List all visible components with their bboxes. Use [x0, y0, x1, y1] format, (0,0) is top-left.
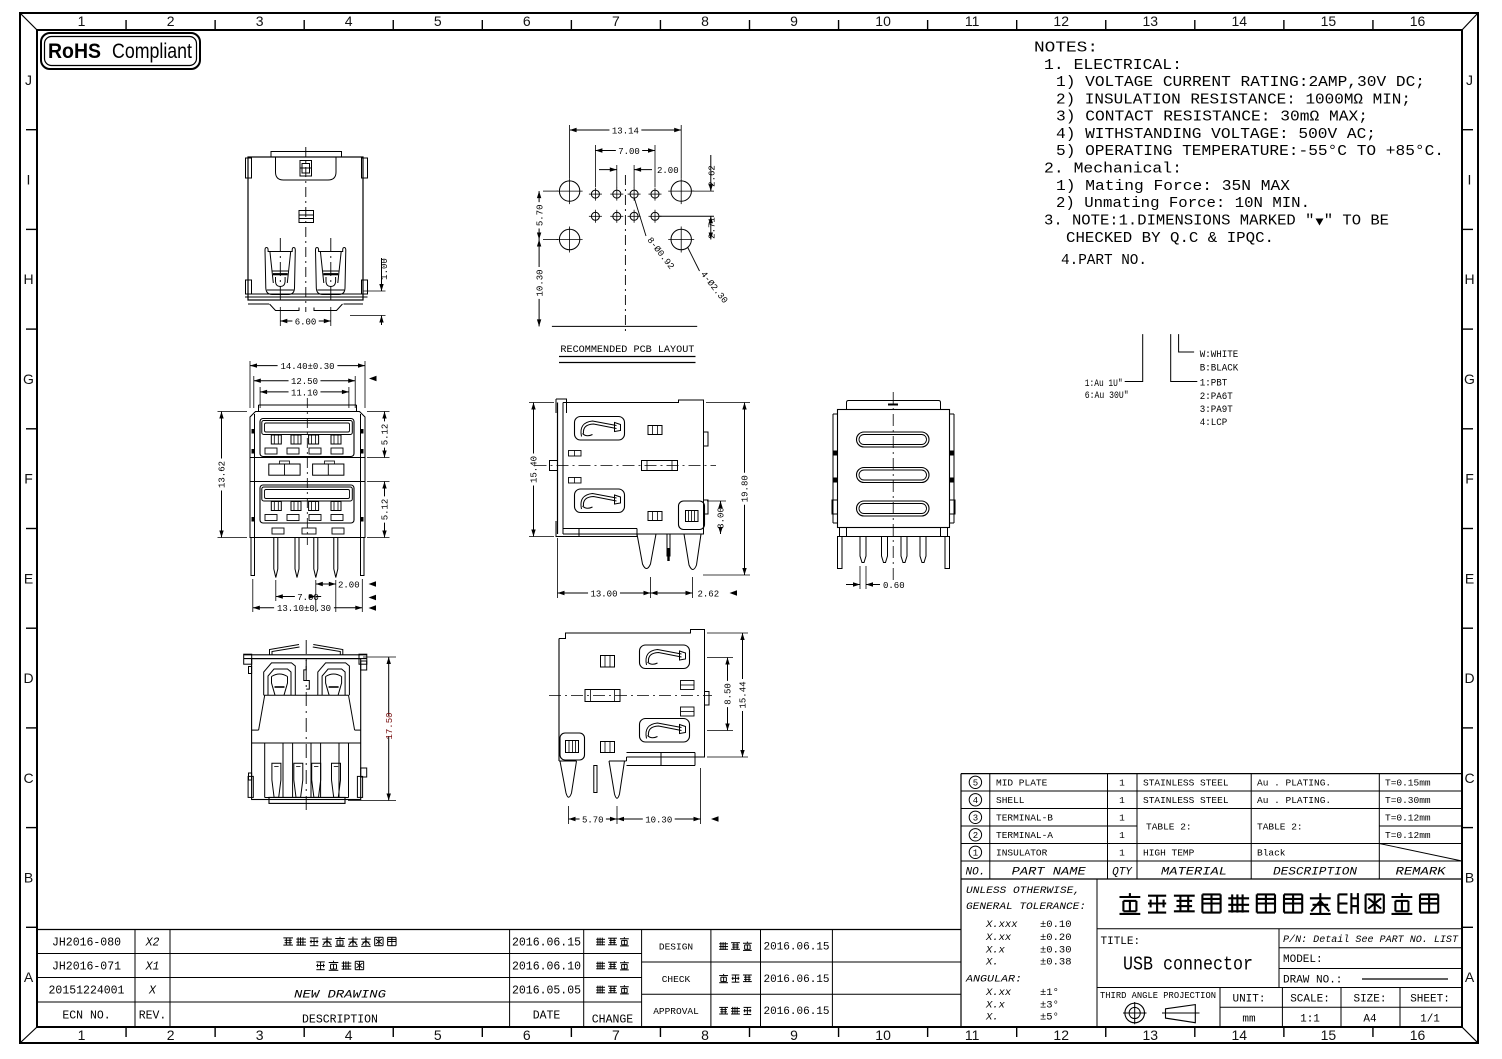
tolerance block [1096, 879, 1098, 1027]
svg-text:14: 14 [1232, 1027, 1248, 1043]
side view rear lock box [679, 501, 705, 530]
svg-text:X.xx: X.xx [985, 932, 1012, 944]
svg-text:T=0.30mm: T=0.30mm [1385, 795, 1431, 806]
revision table Chinese descriptions [283, 937, 293, 939]
svg-text:9: 9 [790, 1027, 798, 1043]
svg-text:G: G [1464, 371, 1475, 387]
svg-text:±5°: ±5° [1040, 1011, 1059, 1023]
PCB hole: shell hole bottom-right [671, 229, 691, 249]
svg-text:4.PART NO.: 4.PART NO. [1061, 252, 1147, 269]
svg-text:3) CONTACT RESISTANCE: 30mΩ MA: 3) CONTACT RESISTANCE: 30mΩ MAX; [1056, 109, 1368, 126]
svg-text:14.40±0.30: 14.40±0.30 [280, 362, 334, 372]
svg-text:RoHS: RoHS [48, 40, 101, 63]
dimension 7.00 pins [275, 580, 277, 601]
dimension 0.60 [859, 566, 861, 589]
top view centerline [305, 147, 307, 312]
bottom view pins [272, 763, 281, 797]
front view pins [274, 538, 278, 578]
svg-text:X.x: X.x [985, 944, 1006, 956]
svg-text:UNLESS OTHERWISE,: UNLESS OTHERWISE, [966, 885, 1080, 897]
svg-text:5.12: 5.12 [381, 424, 391, 446]
svg-text:F: F [1465, 471, 1474, 487]
svg-text:3:PA9T: 3:PA9T [1200, 405, 1233, 416]
svg-text:11.10: 11.10 [291, 388, 318, 398]
PCB hole: shell hole top-right [671, 181, 691, 201]
bottom-side lock box [560, 733, 585, 760]
svg-text:ECN NO.: ECN NO. [62, 1010, 110, 1023]
svg-text:T=0.12mm: T=0.12mm [1385, 813, 1431, 824]
svg-text:±0.30: ±0.30 [1040, 944, 1072, 956]
svg-text:1:1: 1:1 [1300, 1014, 1320, 1026]
svg-text:H: H [23, 271, 33, 287]
svg-text:7.00: 7.00 [297, 593, 319, 603]
svg-text:12: 12 [1053, 1027, 1069, 1043]
svg-text:2016.06.15: 2016.06.15 [512, 937, 581, 950]
side view latch spring upper [575, 417, 625, 441]
svg-text:3: 3 [256, 1027, 264, 1043]
svg-text:SHELL: SHELL [996, 795, 1025, 806]
leader 4-O2.30 [688, 247, 700, 271]
dimension 8.50 [707, 657, 733, 659]
svg-text:±0.20: ±0.20 [1040, 932, 1072, 944]
svg-text:TABLE 2:: TABLE 2: [1146, 822, 1192, 833]
svg-text:W:WHITE: W:WHITE [1200, 350, 1239, 361]
dimension 3.00 [707, 500, 726, 502]
svg-text:I: I [1468, 172, 1472, 188]
svg-text:DESCRIPTION: DESCRIPTION [302, 1014, 378, 1027]
bottom view tongue block [264, 694, 349, 696]
dimension 12.50 [253, 376, 255, 408]
svg-text:2.62: 2.62 [708, 165, 718, 187]
bottom-side centerline [549, 695, 712, 697]
svg-text:STAINLESS STEEL: STAINLESS STEEL [1143, 778, 1229, 789]
dimension 5.12 lower [384, 482, 386, 497]
svg-text:6: 6 [523, 1027, 531, 1043]
dimension 13.14 [569, 125, 571, 178]
svg-text:3.00: 3.00 [717, 507, 727, 529]
front view lower USB port [260, 485, 354, 523]
svg-text:USB connector: USB connector [1123, 954, 1253, 976]
svg-text:4) WITHSTANDING VOLTAGE: 500V: 4) WITHSTANDING VOLTAGE: 500V AC; [1056, 126, 1376, 143]
rear view legs and pins [838, 537, 843, 569]
svg-text:13.10±0.30: 13.10±0.30 [277, 604, 331, 614]
svg-text:UNIT:: UNIT: [1232, 994, 1265, 1006]
svg-text:15: 15 [1321, 13, 1337, 29]
side view shell outline [563, 400, 704, 534]
svg-text:16: 16 [1410, 13, 1426, 29]
top view contact spring right [316, 248, 346, 295]
dimension 13.10±0.30 [252, 579, 254, 612]
svg-text:3: 3 [973, 814, 978, 824]
svg-text:X.xxx: X.xxx [985, 919, 1018, 931]
top view mid detail [299, 211, 314, 223]
svg-text:B: B [24, 870, 33, 886]
dimension 15.44 [707, 632, 748, 634]
svg-text:C: C [1464, 770, 1474, 786]
bottom-side legs [560, 761, 577, 797]
dimension 10.30 [538, 240, 540, 268]
svg-text:1: 1 [973, 849, 978, 859]
svg-text:SHEET:: SHEET: [1410, 994, 1450, 1006]
dimension 5.70 bottom [568, 806, 570, 824]
svg-text:PART NAME: PART NAME [1012, 867, 1086, 879]
dimension 15.40 [529, 402, 554, 404]
svg-text:6.00: 6.00 [295, 317, 317, 327]
bottom view base bar [269, 797, 345, 803]
front view mid plate band [250, 457, 365, 459]
rear view centerline [892, 392, 894, 582]
top view center buckle detail [300, 161, 312, 177]
svg-text:MID PLATE: MID PLATE [996, 778, 1048, 789]
PCB centerline [624, 175, 626, 335]
svg-text:10: 10 [875, 13, 891, 29]
svg-text:±0.38: ±0.38 [1040, 956, 1072, 968]
top view solder hooks [270, 304, 300, 311]
svg-text:7: 7 [612, 1027, 620, 1043]
top view cavity [276, 157, 337, 180]
svg-text:Au . PLATING.: Au . PLATING. [1257, 795, 1331, 806]
PCB pin holes row 2 [591, 212, 599, 220]
rear view shell outline [838, 410, 950, 528]
dimension 2.00 [616, 165, 618, 188]
svg-text:X2: X2 [145, 937, 160, 950]
side view legs [637, 534, 656, 569]
svg-text:11: 11 [965, 1027, 980, 1043]
svg-text:A: A [24, 969, 34, 985]
svg-text:TITLE:: TITLE: [1101, 936, 1141, 948]
bottom view center key notch [304, 660, 310, 689]
svg-text:13.14: 13.14 [612, 126, 639, 136]
svg-text:4:LCP: 4:LCP [1200, 418, 1228, 429]
svg-text:2016.06.15: 2016.06.15 [763, 1006, 829, 1018]
svg-text:4: 4 [345, 1027, 353, 1043]
svg-text:E: E [1465, 570, 1474, 586]
svg-text:1.00: 1.00 [380, 258, 390, 280]
svg-text:2) INSULATION RESISTANCE: 1000: 2) INSULATION RESISTANCE: 1000MΩ MIN; [1056, 91, 1411, 108]
svg-text:1: 1 [78, 13, 86, 29]
svg-text:A: A [1465, 969, 1475, 985]
svg-text:X: X [148, 985, 157, 998]
svg-text:DESIGN: DESIGN [659, 942, 693, 953]
svg-text:REV.: REV. [139, 1010, 167, 1023]
bottom view spring arms [270, 645, 300, 655]
svg-text:7.00: 7.00 [618, 147, 640, 157]
svg-text:17.50: 17.50 [385, 712, 395, 739]
svg-text:13: 13 [1143, 1027, 1159, 1043]
svg-text:RECOMMENDED PCB LAYOUT: RECOMMENDED PCB LAYOUT [560, 344, 694, 356]
svg-text:2. Mechanical:: 2. Mechanical: [1044, 161, 1182, 178]
svg-text:G: G [23, 371, 34, 387]
revision table grid [37, 929, 961, 931]
svg-text:Au . PLATING.: Au . PLATING. [1257, 778, 1331, 789]
dimension 7.00 [594, 145, 596, 187]
svg-text:H: H [1464, 271, 1474, 287]
dimension 17.50 [363, 656, 396, 658]
svg-text:Compliant: Compliant [112, 40, 192, 63]
title block grid [1097, 928, 1462, 930]
svg-text:E: E [24, 570, 33, 586]
dimension 5.12 upper [367, 411, 390, 413]
part number legend tree [1125, 334, 1143, 381]
svg-text:Black: Black [1257, 848, 1286, 859]
bottom view top flange [244, 654, 367, 656]
svg-text:2: 2 [167, 1027, 175, 1043]
svg-text:2016.06.15: 2016.06.15 [763, 942, 829, 954]
svg-text:CHECKED BY Q.C & IPQC.: CHECKED BY Q.C & IPQC. [1066, 230, 1274, 247]
svg-text:DATE: DATE [533, 1010, 561, 1023]
svg-text:20151224001: 20151224001 [49, 985, 125, 998]
svg-text:2016.05.05: 2016.05.05 [512, 985, 581, 998]
svg-text:2.00: 2.00 [338, 581, 360, 591]
svg-text:±0.10: ±0.10 [1040, 919, 1072, 931]
rear view side tabs [832, 414, 834, 523]
svg-text:14: 14 [1232, 13, 1248, 29]
svg-text:J: J [25, 72, 32, 88]
dimension 1.00 [364, 290, 386, 292]
svg-text:9: 9 [790, 13, 798, 29]
parts list rows text [969, 776, 981, 788]
svg-text:1) VOLTAGE CURRENT RATING:2AMP: 1) VOLTAGE CURRENT RATING:2AMP,30V DC; [1056, 74, 1425, 91]
svg-text:13.00: 13.00 [590, 589, 617, 599]
top view shell body [248, 157, 363, 300]
bottom view terminal comb [252, 742, 361, 744]
svg-text:SIZE:: SIZE: [1353, 994, 1386, 1006]
svg-text:1: 1 [78, 1027, 86, 1043]
svg-text:6: 6 [523, 13, 531, 29]
svg-text:5) OPERATING TEMPERATURE:-55°C: 5) OPERATING TEMPERATURE:-55°C TO +85°C. [1056, 143, 1444, 160]
svg-text:X.: X. [985, 956, 999, 968]
svg-text:5: 5 [434, 1027, 442, 1043]
PCB board edge line [552, 325, 697, 327]
company name 浙江虹穗精密电子有限公司 [1120, 896, 1141, 898]
svg-text:X.x: X.x [985, 999, 1006, 1011]
svg-text:5.70: 5.70 [535, 204, 545, 226]
svg-text:GENERAL TOLERANCE:: GENERAL TOLERANCE: [966, 901, 1086, 913]
bottom view centerline [305, 640, 307, 810]
svg-text:MODEL:: MODEL: [1283, 954, 1323, 966]
svg-text:1: 1 [1119, 778, 1125, 789]
PCB hole: shell hole bottom-left [559, 229, 579, 249]
svg-text:1. ELECTRICAL:: 1. ELECTRICAL: [1044, 57, 1182, 74]
svg-text:8: 8 [701, 13, 709, 29]
svg-text:INSULATOR: INSULATOR [996, 848, 1048, 859]
svg-text:CHECK: CHECK [662, 974, 691, 985]
svg-text:8.50: 8.50 [724, 683, 734, 705]
svg-text:0.60: 0.60 [883, 581, 905, 591]
dimension 2.71 [660, 215, 715, 217]
parts list table [961, 773, 1462, 775]
svg-text:3: 3 [256, 13, 264, 29]
svg-text:1:PBT: 1:PBT [1200, 379, 1228, 390]
front view side legs [251, 538, 255, 576]
svg-text:5: 5 [434, 13, 442, 29]
RoHS Compliant label [41, 33, 200, 69]
dimension 5.70 [543, 190, 558, 192]
dimension 19.80 [706, 402, 750, 404]
svg-text:MATERIAL: MATERIAL [1161, 867, 1227, 879]
svg-text:2.71: 2.71 [708, 217, 718, 239]
leader 8-O0.92 [634, 198, 646, 237]
svg-text:B: B [1465, 870, 1474, 886]
side view centerline [535, 464, 717, 466]
svg-text:2.62: 2.62 [698, 590, 720, 600]
front view bottom notches [272, 528, 284, 534]
PCB hole: shell hole top-left [559, 181, 579, 201]
svg-text:JH2016-071: JH2016-071 [52, 961, 121, 974]
dimension 14.40±0.30 [249, 361, 251, 408]
top view contact spring left [265, 248, 295, 295]
svg-text:DESCRIPTION: DESCRIPTION [1273, 867, 1357, 879]
svg-text:NEW DRAWING: NEW DRAWING [294, 990, 386, 1002]
rear view bottom flange [840, 528, 948, 537]
svg-text:TERMINAL-A: TERMINAL-A [996, 830, 1053, 841]
svg-text:2016.06.10: 2016.06.10 [512, 961, 581, 974]
svg-text:19.80: 19.80 [741, 475, 751, 502]
bottom view contact housing right [318, 663, 350, 695]
svg-text:15: 15 [1321, 1027, 1337, 1043]
svg-text:ANGULAR:: ANGULAR: [965, 973, 1022, 985]
svg-text:2.00: 2.00 [657, 166, 679, 176]
svg-text:X.xx: X.xx [985, 987, 1012, 999]
dimension 6.00 [279, 307, 281, 326]
svg-text:I: I [27, 172, 31, 188]
svg-text:5: 5 [973, 779, 978, 789]
svg-text:1) Mating Force: 35N MAX: 1) Mating Force: 35N MAX [1056, 178, 1290, 195]
dimension 13.00 [557, 538, 559, 598]
svg-text:3. NOTE:1.DIMENSIONS MARKED ": 3. NOTE:1.DIMENSIONS MARKED " " TO BE [1044, 213, 1389, 230]
svg-text:1/1: 1/1 [1420, 1014, 1440, 1026]
svg-text:QTY: QTY [1112, 867, 1133, 879]
svg-text:T=0.12mm: T=0.12mm [1385, 830, 1431, 841]
frame corner diagonals [20, 13, 37, 30]
svg-text:mm: mm [1242, 1014, 1256, 1026]
svg-text:HIGH TEMP: HIGH TEMP [1143, 848, 1195, 859]
bottom-side latch lower [640, 719, 690, 743]
svg-text:2016.06.15: 2016.06.15 [763, 974, 829, 986]
svg-text:15.44: 15.44 [739, 681, 749, 708]
PCB pin holes row 1 [591, 190, 599, 198]
dimension 13.62 [218, 411, 248, 413]
svg-text:16: 16 [1410, 1027, 1426, 1043]
svg-text:4: 4 [973, 796, 978, 806]
svg-text:TABLE 2:: TABLE 2: [1257, 822, 1303, 833]
svg-text:B:BLACK: B:BLACK [1200, 363, 1239, 374]
svg-text:4: 4 [345, 13, 353, 29]
svg-text:X1: X1 [145, 961, 160, 974]
dimension 2.00 pins [315, 580, 317, 612]
svg-text:F: F [24, 471, 33, 487]
svg-text:±1°: ±1° [1040, 987, 1059, 999]
svg-text:J: J [1466, 72, 1473, 88]
svg-text:±3°: ±3° [1040, 999, 1059, 1011]
svg-text:SCALE:: SCALE: [1290, 994, 1330, 1006]
dimension 2.62 [692, 190, 714, 192]
svg-text:P/N: Detail See PART NO. LIST: P/N: Detail See PART NO. LIST [1283, 934, 1459, 946]
svg-text:12.50: 12.50 [291, 377, 318, 387]
svg-text:DRAW NO.:: DRAW NO.: [1283, 975, 1342, 987]
svg-text:1:Au 1U": 1:Au 1U" [1085, 378, 1123, 390]
svg-text:1: 1 [1119, 795, 1125, 806]
svg-text:10: 10 [875, 1027, 891, 1043]
svg-text:15.40: 15.40 [530, 456, 540, 483]
svg-text:10.30: 10.30 [645, 815, 672, 825]
front view centerline [306, 398, 308, 545]
svg-text:THIRD ANGLE PROJECTION: THIRD ANGLE PROJECTION [1100, 990, 1216, 1001]
svg-text:NO.: NO. [965, 867, 985, 879]
svg-text:5.70: 5.70 [582, 815, 604, 825]
svg-text:7: 7 [612, 13, 620, 29]
side view small details [648, 426, 662, 435]
svg-text:REMARK: REMARK [1396, 867, 1448, 879]
svg-text:5.12: 5.12 [381, 499, 391, 521]
rear view stamped slots [857, 432, 930, 447]
svg-text:D: D [1464, 670, 1474, 686]
dimension 2.62 side [692, 577, 694, 598]
side view latch spring lower [575, 489, 625, 513]
svg-text:CHANGE: CHANGE [592, 1014, 634, 1027]
svg-text:1: 1 [1119, 813, 1125, 824]
svg-text:1: 1 [1119, 830, 1125, 841]
svg-text:11: 11 [965, 13, 980, 29]
bottom-side body outline [559, 630, 705, 758]
svg-text:2: 2 [167, 13, 175, 29]
bottom-side latch upper [640, 645, 690, 669]
bottom-side rear flange [627, 752, 696, 754]
bottom view contact housing left [264, 663, 296, 695]
svg-text:STAINLESS STEEL: STAINLESS STEEL [1143, 795, 1229, 806]
svg-text:C: C [23, 770, 33, 786]
svg-text:1: 1 [1119, 848, 1125, 859]
svg-text:APPROVAL: APPROVAL [653, 1006, 699, 1017]
svg-text:8: 8 [701, 1027, 709, 1043]
bottom-side small details [601, 656, 615, 668]
svg-text:T=0.15mm: T=0.15mm [1385, 778, 1431, 789]
top view bottom flange [245, 293, 368, 295]
svg-text:D: D [23, 670, 33, 686]
svg-text:TERMINAL-B: TERMINAL-B [996, 813, 1053, 824]
svg-text:13.62: 13.62 [218, 461, 228, 488]
svg-text:10.30: 10.30 [535, 269, 545, 296]
dimension 10.30 bottom [617, 818, 643, 820]
side view bottom flange [563, 528, 637, 530]
dimension 11.10 [259, 387, 261, 408]
svg-text:2:PA6T: 2:PA6T [1200, 392, 1233, 403]
svg-text:NOTES:: NOTES: [1034, 40, 1098, 57]
svg-text:2) Unmating Force: 10N MIN.: 2) Unmating Force: 10N MIN. [1056, 195, 1310, 212]
front view upper USB port [260, 419, 354, 457]
svg-text:A4: A4 [1363, 1014, 1377, 1026]
svg-text:6:Au 30U": 6:Au 30U" [1085, 390, 1129, 402]
svg-text:JH2016-080: JH2016-080 [52, 937, 121, 950]
bottom view body outline [252, 659, 361, 800]
svg-text:X.: X. [985, 1011, 999, 1023]
svg-text:13: 13 [1143, 13, 1159, 29]
svg-text:2: 2 [973, 831, 978, 841]
front view shell outline [250, 412, 365, 538]
svg-text:12: 12 [1053, 13, 1069, 29]
